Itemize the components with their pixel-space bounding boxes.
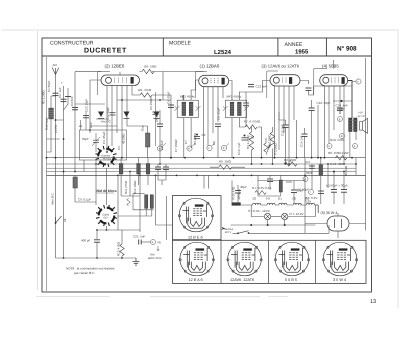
resistor R2b inline	[284, 162, 297, 166]
tube base circle 35W4	[322, 242, 357, 276]
svg-text:(1): (1)	[278, 196, 282, 200]
svg-text:R9 1kΩ: R9 1kΩ	[344, 165, 348, 176]
capacitor C13	[248, 84, 254, 86]
T3 pin wires	[275, 86, 295, 164]
capacitor C15	[283, 125, 289, 127]
wire coil	[47, 96, 56, 152]
svg-text:NOTA : la commutation est réal: NOTA : la commutation est réalisée	[66, 267, 115, 271]
tube base circle 12BA6	[179, 242, 214, 276]
svg-text:R.T. 6.3V 0.3A: R.T. 6.3V 0.3A	[252, 186, 271, 190]
svg-text:Ant: Ant	[53, 63, 58, 67]
wire top horizontal	[75, 71, 101, 73]
wires CV area	[84, 160, 173, 258]
wire	[75, 175, 96, 202]
bus line 2	[47, 163, 357, 165]
svg-text:C23 10pF: C23 10pF	[85, 99, 89, 112]
svg-text:C10 .1μF: C10 .1μF	[237, 142, 241, 155]
tube T2 12BA6	[196, 71, 229, 98]
lamp 2	[282, 213, 288, 219]
wire R7	[239, 127, 261, 158]
svg-text:40μF: 40μF	[240, 185, 247, 189]
choke R14 dark	[232, 202, 241, 205]
box 12BE6 base	[173, 196, 222, 240]
svg-text:5 0 B 5: 5 0 B 5	[285, 278, 297, 282]
capacitor 400pF	[94, 240, 100, 242]
divider 3	[315, 240, 317, 283]
wire OPT secondary	[350, 131, 356, 158]
svg-text:R12 10kΩ: R12 10kΩ	[133, 180, 137, 194]
wire plate T4 to OPT	[348, 81, 352, 119]
capacitor C12	[309, 108, 315, 110]
heater labels	[253, 196, 310, 200]
svg-text:110 V: 110 V	[225, 231, 232, 234]
capacitor C3	[72, 107, 78, 109]
osc transformer pair	[118, 194, 153, 217]
wire R6	[210, 166, 245, 168]
capacitor C11	[306, 88, 312, 90]
svg-text:C9. 0.1μF: C9. 0.1μF	[78, 198, 91, 202]
wire terre	[63, 86, 65, 258]
heater wire right	[315, 205, 319, 213]
svg-text:DR. 1MΩ: DR. 1MΩ	[144, 64, 157, 68]
svg-text:C3 .05μF: C3 .05μF	[102, 131, 106, 144]
svg-text:GO: GO	[104, 217, 108, 220]
capacitor C21	[139, 240, 142, 245]
svg-text:(5): (5)	[306, 196, 310, 200]
divider 2	[268, 240, 270, 283]
svg-text:Inter B.C.: Inter B.C.	[51, 192, 55, 205]
svg-text:a1: a1	[79, 124, 83, 128]
T4 pin wires	[325, 86, 345, 164]
svg-text:C4 .05μF: C4 .05μF	[167, 91, 171, 104]
capacitor C14	[302, 134, 308, 136]
lamp branch wires	[231, 205, 316, 225]
svg-text:(4) 50B5: (4) 50B5	[322, 64, 339, 69]
resistor R6	[219, 165, 232, 169]
resistor R12 vertical dark	[137, 164, 141, 175]
bus line 1	[47, 157, 366, 159]
svg-text:par clavier B.C.: par clavier B.C.	[73, 271, 95, 275]
svg-text:Osc.: Osc.	[141, 125, 145, 131]
wire	[74, 72, 76, 172]
node circle j	[303, 117, 358, 195]
resistor R15 vertical dark	[146, 164, 150, 175]
svg-text:S = 0.3A - 12.6V: S = 0.3A - 12.6V	[248, 209, 270, 213]
svg-text:P 0.5MΩ: P 0.5MΩ	[274, 143, 278, 155]
svg-text:MF2 455kc: MF2 455kc	[227, 95, 242, 99]
svg-text:C17: C17	[305, 160, 311, 164]
bus line 4	[47, 174, 366, 176]
header table	[42, 38, 372, 56]
svg-text:50pF: 50pF	[82, 137, 89, 141]
svg-text:(1) 12BA6: (1) 12BA6	[200, 64, 220, 69]
svg-text:13: 13	[370, 299, 376, 305]
schematic frame	[42, 56, 372, 292]
svg-text:C9: C9	[202, 133, 206, 137]
svg-text:R7. 0.47MΩ: R7. 0.47MΩ	[244, 120, 261, 124]
heater coil 1	[279, 203, 287, 205]
svg-text:R.T. 12.6V: R.T. 12.6V	[290, 212, 304, 216]
capacitor C1	[53, 93, 59, 95]
svg-text:ANNEE: ANNEE	[285, 42, 303, 48]
capacitor C18	[337, 108, 343, 110]
svg-text:12 B A 6: 12 B A 6	[189, 278, 203, 282]
svg-text:MF1 455kc: MF1 455kc	[180, 95, 195, 99]
bus line 3	[47, 171, 357, 173]
svg-text:R.16 40Ω: R.16 40Ω	[330, 162, 344, 166]
wire plate T3 to C coupling	[300, 81, 309, 85]
divider 1	[220, 240, 222, 283]
wire top resistor	[140, 72, 204, 101]
svg-text:R13 4.7kΩ: R13 4.7kΩ	[117, 241, 121, 256]
heater coil 3	[293, 203, 301, 205]
svg-text:C8: C8	[212, 141, 216, 145]
svg-text:150pF: 150pF	[337, 107, 346, 111]
wires MF2	[232, 81, 270, 158]
resistor Th 1M	[142, 69, 154, 73]
wires R11 R12	[121, 158, 148, 196]
svg-text:12 cm: 12 cm	[358, 114, 366, 118]
svg-text:(2): (2)	[253, 196, 257, 200]
svg-text:400 pF: 400 pF	[81, 239, 91, 243]
svg-text:C6 150pF: C6 150pF	[149, 97, 153, 110]
svg-text:CV: CV	[117, 146, 121, 150]
svg-text:(3): (3)	[293, 196, 297, 200]
svg-text:R11 27kΩ: R11 27kΩ	[124, 180, 128, 194]
wire to node	[141, 241, 150, 243]
svg-text:R1 2.2MΩ: R1 2.2MΩ	[41, 90, 45, 104]
node circle fil	[225, 227, 227, 229]
svg-text:C8 .05μF: C8 .05μF	[217, 107, 221, 120]
plug arrow	[221, 227, 226, 230]
heater chain wire	[241, 204, 307, 206]
secteur wire	[233, 225, 330, 233]
svg-text:C7 150pF: C7 150pF	[174, 139, 178, 152]
trimmer block box	[79, 130, 126, 160]
T1 pin wires	[107, 72, 132, 158]
svg-text:MODELE: MODELE	[169, 41, 191, 47]
wire grid T1	[90, 80, 101, 133]
switch arrow	[56, 216, 62, 223]
dots lamp line	[250, 224, 286, 226]
svg-text:(5) 35 W 4: (5) 35 W 4	[321, 211, 338, 215]
tube base circle 12BE6	[178, 198, 213, 232]
svg-text:C1 50pF: C1 50pF	[47, 80, 51, 92]
svg-text:C2 .1μF: C2 .1μF	[58, 87, 62, 98]
svg-text:C12. 50pF: C12. 50pF	[317, 101, 331, 105]
tuning switch CV1 sunburst	[96, 146, 117, 167]
svg-text:Int.: Int.	[63, 218, 67, 222]
resistor R8	[336, 156, 347, 160]
svg-text:R.16 47Ω: R.16 47Ω	[232, 186, 236, 200]
svg-text:Amorce: Amorce	[237, 189, 241, 200]
capacitor C4	[168, 105, 174, 107]
wires into tube box	[204, 175, 209, 188]
wire right of box	[166, 196, 168, 240]
wires MF1	[184, 80, 199, 158]
svg-text:C23: C23	[89, 122, 93, 128]
T2 pin wires	[204, 87, 224, 158]
sub circuit right-mid	[258, 175, 270, 196]
resistor R4 vertical	[249, 132, 253, 150]
svg-text:Bobinage: Bobinage	[45, 117, 49, 130]
IF transformer MF1	[175, 100, 201, 117]
svg-text:CONSTRUCTEUR: CONSTRUCTEUR	[50, 41, 94, 47]
svg-text:(3) 12AV6 ou 12AT6: (3) 12AV6 ou 12AT6	[262, 64, 300, 69]
bus line 3b	[47, 167, 357, 169]
node circle ph	[151, 240, 156, 245]
svg-text:1955: 1955	[295, 48, 309, 55]
svg-text:N° 908: N° 908	[337, 45, 357, 52]
svg-text:Ph: Ph	[158, 241, 162, 245]
scattered tiny labels	[63, 95, 348, 223]
svg-text:C14 1nF: C14 1nF	[300, 135, 304, 147]
capacitor C8	[215, 124, 221, 126]
svg-text:C21. 5nF: C21. 5nF	[133, 235, 146, 239]
oscillator coil	[146, 133, 150, 147]
left inner border wire	[46, 57, 48, 291]
capacitor C2b	[65, 96, 71, 98]
svg-text:12 B E 6: 12 B E 6	[188, 236, 203, 240]
coil L1	[49, 108, 54, 119]
coil left mid	[73, 177, 77, 188]
capacitor C5	[157, 124, 163, 126]
svg-text:R10. 470Ω: R10. 470Ω	[330, 138, 345, 142]
resistor R2 47k	[140, 93, 152, 97]
tube base circle 12AV6	[227, 242, 262, 276]
svg-text:(2) 12BE6: (2) 12BE6	[105, 64, 125, 69]
speaker	[360, 118, 368, 133]
ground	[133, 258, 140, 265]
wire antenna lead	[55, 75, 57, 259]
svg-text:45.500c: 45.500c	[122, 133, 126, 144]
svg-text:C22 50pF: C22 50pF	[106, 107, 110, 120]
electrolytic cap 2	[341, 190, 347, 193]
capacitor C19	[235, 191, 241, 194]
heater coil 5	[306, 203, 314, 205]
wire bottom horizontal	[56, 257, 137, 259]
resistor R5 vertical	[268, 132, 275, 147]
antenna	[52, 68, 59, 75]
svg-text:T: T	[61, 81, 63, 85]
svg-text:(o) 50μF + 30μF: (o) 50μF + 30μF	[326, 184, 348, 188]
wires right below bus	[305, 158, 356, 234]
tuning switch CV2 sunburst	[96, 205, 117, 226]
volume pot	[264, 138, 271, 155]
output transformer	[348, 118, 357, 132]
svg-text:(o) 50μF: (o) 50μF	[298, 188, 310, 192]
svg-text:DUCRETET: DUCRETET	[84, 48, 127, 55]
svg-text:R8. 150Ω 2.2W: R8. 150Ω 2.2W	[328, 151, 349, 155]
junction dots	[46, 151, 357, 259]
resistor R9 vertical dark	[319, 165, 323, 176]
svg-text:autre terre: autre terre	[148, 256, 162, 260]
svg-text:12AV6. 12AT6: 12AV6. 12AT6	[230, 278, 254, 282]
svg-text:C10: C10	[249, 136, 255, 140]
wires rectifier	[305, 213, 366, 238]
svg-text:C7: C7	[184, 140, 188, 144]
resistor R13 vertical	[120, 244, 124, 256]
wire arrow	[157, 246, 159, 251]
svg-text:C13 5nF: C13 5nF	[256, 85, 268, 89]
tube T1 12BE6	[98, 72, 140, 96]
svg-text:L2524: L2524	[214, 49, 232, 56]
node circles mid	[157, 143, 229, 151]
resistor R7	[245, 125, 257, 129]
svg-text:L1 PO: L1 PO	[54, 124, 58, 133]
rectifier tube 35W4	[327, 216, 349, 231]
IF transformer MF2	[223, 100, 249, 117]
svg-text:R6. 1MΩ: R6. 1MΩ	[219, 159, 232, 163]
svg-text:(4): (4)	[266, 196, 270, 200]
wire plate T1	[132, 95, 171, 158]
caps mid col	[155, 167, 169, 169]
tube T3 12AV6	[267, 71, 300, 98]
capacitor C17	[309, 166, 315, 168]
svg-text:r: r	[310, 190, 311, 194]
wire bus corner down	[258, 175, 305, 180]
heater coil 2	[253, 203, 261, 205]
svg-text:C3 5nF: C3 5nF	[70, 96, 74, 106]
resistor R11 vertical dark	[119, 164, 123, 175]
bottom tube box row	[173, 240, 367, 283]
svg-text:C6 5nF: C6 5nF	[160, 140, 164, 150]
lamp 1	[264, 213, 270, 219]
svg-text:3 5 W 4: 3 5 W 4	[333, 278, 346, 282]
secteur switch	[238, 231, 249, 234]
heater coil 4	[267, 203, 275, 205]
wire diag	[64, 96, 69, 110]
trimmer 50pF	[92, 137, 100, 146]
capacitor C2	[61, 99, 67, 101]
electrolytic cap 1	[331, 190, 337, 193]
tube T4 50B5	[314, 69, 348, 96]
wire top right	[314, 58, 366, 230]
wire in box	[95, 133, 97, 152]
tube base circle 50B5	[274, 242, 309, 276]
wire plate T2	[229, 81, 232, 101]
svg-text:DR. 47kΩ: DR. 47kΩ	[138, 88, 152, 92]
